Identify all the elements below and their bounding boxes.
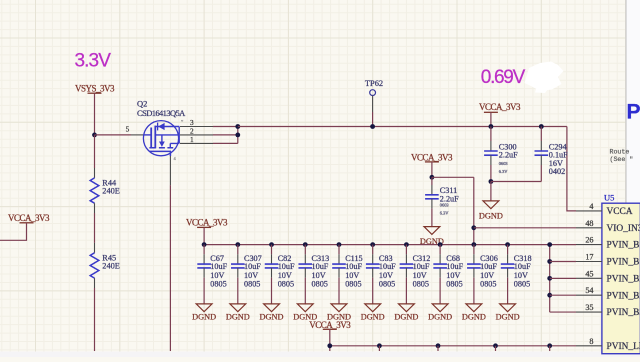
wire drain pin3: [213, 126, 238, 128]
svg-text:0805: 0805: [514, 279, 530, 288]
wire C83 to DGND: [372, 278, 374, 304]
wire C294 bottom: [540, 165, 542, 182]
whiteout smudge: [525, 62, 564, 92]
wire pin column vertical: [549, 245, 551, 313]
wire bus to C313: [304, 245, 306, 255]
wire col to pin 54: [550, 294, 576, 296]
capacitor C83: [372, 254, 374, 264]
capacitor C318: [507, 254, 509, 264]
node bottom bus x438: [436, 343, 441, 348]
svg-text:0805: 0805: [345, 279, 361, 288]
sheet bottom margin: [0, 352, 640, 358]
testpoint TP62: [370, 90, 376, 96]
svg-text:U5: U5: [604, 192, 614, 202]
wire bank port stem: [203, 227, 205, 244]
svg-text:10uF: 10uF: [244, 262, 261, 271]
capacitor C306: [473, 254, 475, 264]
wire col to pin 17: [550, 260, 576, 262]
node C68 bus junction: [438, 242, 443, 247]
node bottom bus x379: [377, 343, 382, 348]
node bottom bus x495: [493, 343, 498, 348]
pin 4 source lead: [169, 156, 171, 185]
sheet right margin: [627, 0, 640, 357]
svg-text:26: 26: [585, 236, 593, 245]
resistor R44: [94, 168, 96, 178]
ground DGND C300: [483, 201, 499, 209]
capacitor C82: [271, 254, 273, 264]
capacitor C294: [540, 141, 542, 151]
node drain tie b: [235, 124, 240, 129]
ground DGND C311: [424, 227, 440, 235]
svg-text:54: 54: [585, 286, 593, 295]
svg-text:6.3V: 6.3V: [499, 169, 508, 174]
svg-text:35: 35: [585, 303, 593, 312]
node C307 bus junction: [235, 242, 240, 247]
wire C67 to DGND: [203, 278, 205, 304]
op: transistor Q2 symbol: [143, 121, 178, 156]
wire C68 to DGND: [439, 278, 441, 304]
wire col to pin 45: [550, 277, 576, 279]
svg-text:240E: 240E: [102, 261, 120, 270]
node VIO branch: [471, 225, 476, 230]
svg-text:DGND: DGND: [462, 312, 486, 321]
wire rail to DGND: [490, 182, 492, 201]
ground DGND C68: [432, 304, 448, 312]
wire bus to C318: [507, 245, 509, 255]
svg-text:10uF: 10uF: [345, 262, 362, 271]
wire to U5 pin48: [474, 227, 576, 229]
svg-text:PVIN_B2: PVIN_B2: [607, 274, 640, 284]
node col 26: [547, 242, 552, 247]
wire stub down x495: [495, 346, 497, 351]
node C311 junction: [430, 175, 435, 180]
node C313 bus junction: [303, 242, 308, 247]
wire branch down: [473, 177, 475, 244]
svg-text:0603: 0603: [499, 161, 509, 166]
svg-text:DGND: DGND: [192, 312, 216, 321]
wire C307 to DGND: [237, 278, 239, 304]
wire bus to C307: [237, 245, 239, 255]
svg-text:VCCA_3V3: VCCA_3V3: [479, 102, 521, 112]
svg-text:DGND: DGND: [496, 312, 520, 321]
svg-text:3.3V: 3.3V: [75, 51, 112, 72]
wire C311 branch right: [432, 176, 474, 178]
ground DGND C115: [331, 304, 347, 312]
svg-text:0805: 0805: [312, 279, 328, 288]
ground DGND C82: [264, 304, 280, 312]
svg-text:10uF: 10uF: [379, 262, 396, 271]
svg-text:0603: 0603: [440, 203, 450, 208]
wire C318 to DGND: [507, 278, 509, 304]
wire C300 bottom: [490, 165, 492, 182]
wire gate horizontal: [95, 134, 132, 136]
wire VCCA top stem: [490, 112, 492, 126]
svg-text:P: P: [627, 101, 640, 124]
svg-text:6.3V: 6.3V: [440, 211, 449, 216]
wire bus to U5 pin4: [567, 127, 576, 211]
svg-text:TP62: TP62: [365, 79, 383, 88]
pin 1 lead: [180, 142, 213, 144]
node C312 bus junction: [404, 242, 409, 247]
svg-text:PVIN_B1: PVIN_B1: [607, 241, 640, 251]
svg-text:DGND: DGND: [394, 312, 418, 321]
wire C115 to DGND: [338, 278, 340, 304]
capacitor C313: [304, 254, 306, 264]
ground DGND C313: [297, 304, 313, 312]
svg-text:48: 48: [585, 219, 593, 228]
svg-text:0805: 0805: [278, 279, 294, 288]
capacitor C312: [405, 254, 407, 264]
capacitor C307: [237, 254, 239, 264]
pin 4 lead U5: [576, 210, 602, 212]
svg-text:VCCA_3V3: VCCA_3V3: [309, 320, 351, 330]
ground DGND C307: [230, 304, 246, 312]
node col 54: [547, 293, 552, 298]
wire stub down x549: [549, 346, 551, 351]
wire VSYS to R44: [94, 135, 96, 168]
svg-text:5: 5: [126, 124, 130, 133]
svg-text:VCCA_3V3: VCCA_3V3: [8, 213, 50, 223]
svg-text:45: 45: [585, 269, 593, 278]
node col 17: [547, 259, 552, 264]
svg-text:VSYS_3V3: VSYS_3V3: [75, 84, 115, 94]
pin 17 lead U5: [576, 261, 602, 263]
svg-text:0805: 0805: [379, 279, 395, 288]
wire stub down x379: [378, 346, 380, 351]
op-amp: IC U5 box: [602, 203, 640, 354]
capacitor C115: [338, 254, 340, 264]
wire bottom bus: [330, 345, 576, 347]
ground DGND C83: [365, 304, 381, 312]
svg-text:10uF: 10uF: [413, 262, 430, 271]
svg-text:PVIN_B2: PVIN_B2: [607, 291, 640, 301]
svg-text:0805: 0805: [210, 279, 226, 288]
node C82 bus junction: [269, 242, 274, 247]
capacitor C68: [439, 254, 441, 264]
node C306 bus junction: [471, 242, 476, 247]
node bottom bus x549: [547, 343, 552, 348]
svg-text:17: 17: [585, 253, 593, 262]
wire drain tie vertical: [237, 127, 239, 144]
svg-text:VCCA: VCCA: [607, 207, 633, 217]
wire C311 to DGND: [431, 209, 433, 227]
svg-text:VCCA_3V3: VCCA_3V3: [186, 218, 228, 228]
ground DGND C306: [466, 304, 482, 312]
wire bus to C83: [372, 245, 374, 255]
svg-text:0805: 0805: [244, 279, 260, 288]
pin 5 gate lead: [131, 134, 144, 136]
svg-text:0805: 0805: [446, 279, 462, 288]
svg-text:1: 1: [190, 135, 194, 144]
svg-text:10uF: 10uF: [514, 262, 531, 271]
ground DGND C318: [500, 304, 516, 312]
pin 45 lead U5: [576, 277, 602, 279]
pin 3 lead: [180, 126, 213, 128]
node C294 top junction: [539, 124, 544, 129]
pin 35 lead U5: [576, 311, 602, 313]
node C300 gnd junction: [489, 179, 494, 184]
svg-text:2.2uF: 2.2uF: [499, 151, 518, 160]
svg-text:10uF: 10uF: [278, 262, 295, 271]
wire C312 to DGND: [405, 278, 407, 304]
svg-text:0805: 0805: [480, 279, 496, 288]
svg-text:10uF: 10uF: [446, 262, 463, 271]
wire R44 to R45: [94, 213, 96, 243]
wire drain pin1: [213, 142, 238, 144]
wire VCCA mid stem: [431, 162, 433, 177]
svg-text:PVIN_B3: PVIN_B3: [607, 308, 640, 318]
wire drain pin2: [213, 134, 238, 136]
capacitor C67: [203, 254, 205, 264]
svg-text:(See ": (See ": [610, 156, 634, 163]
node drain tie a: [235, 133, 240, 138]
pin 48 lead U5: [576, 227, 602, 229]
svg-text:VCCA_3V3: VCCA_3V3: [411, 152, 453, 162]
svg-text:PVIN_B1: PVIN_B1: [607, 258, 640, 268]
wire main 3.3V bus: [238, 126, 567, 128]
wire bottom port stem: [329, 329, 331, 351]
node C115 bus junction: [337, 242, 342, 247]
wire TP62 to bus: [372, 112, 374, 127]
node C300 top junction: [489, 124, 494, 129]
wire source down: [169, 185, 171, 351]
node TP62 junction: [370, 124, 375, 129]
svg-text:DGND: DGND: [260, 312, 284, 321]
wire bus to C67: [203, 245, 205, 255]
node C83 bus junction: [370, 242, 375, 247]
node col 45: [547, 276, 552, 281]
svg-text:10uF: 10uF: [210, 262, 227, 271]
svg-text:VIO_IN3: VIO_IN3: [607, 224, 640, 234]
svg-text:PVIN_LD: PVIN_LD: [607, 342, 640, 352]
svg-text:DGND: DGND: [361, 312, 385, 321]
svg-text:Route: Route: [610, 149, 630, 156]
svg-text:CSD16413Q5A: CSD16413Q5A: [137, 108, 186, 118]
pin 54 lead U5: [576, 294, 602, 296]
node C67 bus junction: [202, 242, 207, 247]
svg-text:0402: 0402: [549, 167, 565, 176]
wire stub down x438: [437, 346, 439, 351]
svg-text:0805: 0805: [413, 279, 429, 288]
svg-text:0.69V: 0.69V: [481, 67, 526, 88]
wire VSYS_3V3 stem: [94, 93, 96, 135]
ground DGND C312: [399, 304, 415, 312]
capacitor C311: [431, 177, 433, 185]
svg-text:DGND: DGND: [479, 211, 503, 220]
wire col to pin 35: [550, 311, 576, 313]
resistor R45: [94, 243, 96, 253]
svg-text:4: 4: [589, 202, 593, 211]
wire C306 to DGND: [473, 278, 475, 304]
wire gnd rail C300-C294: [491, 181, 541, 183]
capacitor C300: [490, 141, 492, 151]
wire bus to C306: [473, 245, 475, 255]
node C318 bus junction: [505, 242, 510, 247]
wire bus to C294: [540, 127, 542, 142]
node bottom bus x329: [327, 343, 332, 348]
wire cap bank bus: [204, 244, 576, 246]
wire C82 to DGND: [271, 278, 273, 304]
pin 8 lead U5: [576, 345, 602, 347]
svg-text:10uF: 10uF: [312, 262, 329, 271]
svg-text:10uF: 10uF: [480, 262, 497, 271]
ground DGND C67: [196, 304, 212, 312]
wire R45 down to edge: [94, 288, 96, 351]
wire bus to C300: [490, 127, 492, 142]
sheet border line: [625, 0, 627, 352]
svg-text:8: 8: [589, 337, 593, 346]
svg-text:DGND: DGND: [226, 312, 250, 321]
wire bus to C115: [338, 245, 340, 255]
wire bus to C82: [271, 245, 273, 255]
wire C313 to DGND: [304, 278, 306, 304]
svg-text:DGND: DGND: [428, 312, 452, 321]
wire bus to C312: [405, 245, 407, 255]
node gate junction: [92, 133, 97, 138]
pin TP62 lead: [372, 96, 374, 112]
pin 26 lead U5: [576, 244, 602, 246]
svg-text:240E: 240E: [102, 186, 120, 195]
wire VCCA left: [0, 223, 27, 241]
wire bus to C68: [439, 245, 441, 255]
pin 2 lead: [180, 134, 213, 136]
